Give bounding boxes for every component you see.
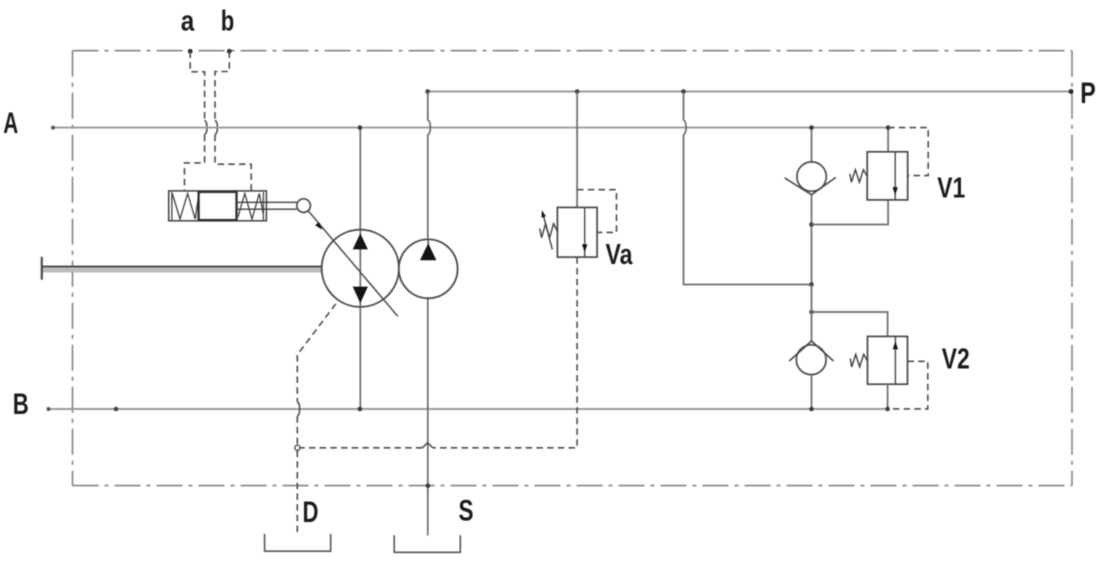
node P [1069,89,1074,94]
pilot line a (dashed) [185,52,205,191]
node V2-B [885,407,890,412]
node C1-V1 [809,222,814,227]
V1 spring [850,170,867,183]
node line B start [47,407,51,411]
V1 supply [887,128,889,152]
node top Va [575,89,580,94]
V2 spring [850,354,867,367]
port node a [188,49,193,54]
piston box [199,192,237,220]
node on line B [114,407,119,412]
drain junction node (open) [295,445,300,450]
V2 top branch [812,312,888,336]
svg-text:V2: V2 [942,344,970,376]
suction line S (vertical with hop over A) [428,92,431,240]
svg-text:V1: V1 [937,173,965,205]
charge pump circle [399,239,458,298]
Va drain line (dashed) with jog over S line [300,257,577,448]
svg-text:b: b [221,6,235,38]
node feed-C [809,282,814,287]
node top S [425,89,430,94]
V2 internal arrow (up) [894,336,896,384]
svg-text:P: P [1080,77,1096,110]
V2 pilot (dashed) [888,361,928,409]
V2 bottom line [887,384,889,409]
control rod [237,202,297,209]
top pressure line to P [428,91,1072,93]
right spring plate [262,192,264,220]
pump flow triangle down [353,287,368,304]
V1 internal arrow (down) [894,152,896,200]
V1 pilot (dashed) [888,128,928,176]
ball joint [297,199,311,213]
check valve C2 [796,345,826,375]
relief valve V2 body [868,336,908,384]
relief valve V1 body [867,152,908,200]
svg-text:A: A [3,107,18,140]
charge pump triangle [420,243,436,260]
node C2-B [809,407,814,412]
port node b [227,49,232,54]
svg-text:S: S [459,495,474,528]
left spring plate [171,192,173,220]
relief valve Va body [557,207,597,257]
check valve C2 line [811,285,813,342]
servo actuator outer box [169,191,267,221]
charge pump stub [427,239,429,245]
node pump-A [358,125,363,130]
V1 bottom branch [812,200,889,225]
Va pilot (dashed) [577,190,616,233]
svg-text:B: B [13,388,29,421]
node line A start [51,126,55,130]
drive shaft [42,257,322,280]
feed line to valve block (vertical with hop over A) [684,92,812,285]
check valve C1 [797,162,826,191]
pilot line b (dashed) [215,52,251,191]
swashplate control arrow [308,211,398,317]
svg-text:Va: Va [606,239,634,271]
node top feed [681,89,686,94]
C1 to junction [811,195,813,285]
Va adjust arrow [542,212,552,250]
check valve C1 line [811,128,813,162]
Va spring [540,224,558,238]
node pump-B [358,407,363,412]
pump drain line (dashed) [297,304,336,445]
tank bracket D [265,534,331,551]
line B [49,408,888,410]
big pump vertical line [359,128,361,409]
enclosure border (dash-dot) [73,51,1073,486]
left spring [172,194,198,220]
node V2 branch [809,310,814,315]
node A-C1 [809,125,814,130]
node A-V1 [886,125,891,130]
variable displacement pump circle [322,230,399,307]
node S-border [426,483,431,488]
right spring [238,194,263,220]
pump flow triangle up [353,233,368,249]
svg-text:D: D [303,496,319,529]
line A [53,127,888,129]
big pump vertical inside [359,230,361,307]
tank bracket S [394,535,460,552]
Va internal arrow [584,207,586,257]
svg-text:a: a [181,6,195,38]
C2 to line B [811,375,813,409]
Va supply line [576,92,578,208]
